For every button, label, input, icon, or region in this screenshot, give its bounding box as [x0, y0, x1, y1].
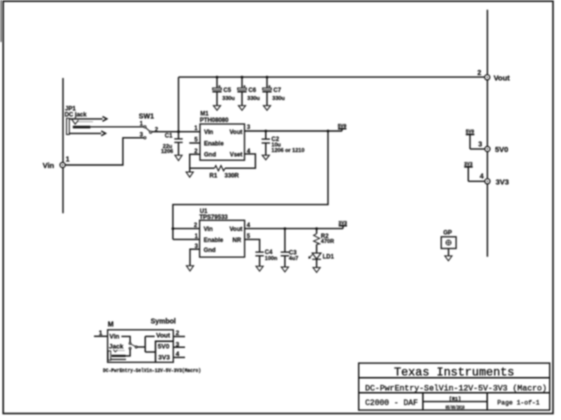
capacitor C5 330u: [212, 76, 234, 111]
svg-text:5V0: 5V0: [466, 128, 475, 135]
svg-text:DC-PwrEntry-SelVin-12V-5V-3V3(: DC-PwrEntry-SelVin-12V-5V-3V3(Macro): [103, 368, 201, 374]
wire 5V0 flag to node: [470, 148, 485, 150]
title block revision divider: [423, 401, 487, 403]
svg-text:C7: C7: [273, 88, 281, 94]
LED LD1: [308, 253, 334, 272]
svg-text:3: 3: [247, 125, 251, 131]
node 3V3 terminal pin 4: [480, 174, 509, 187]
svg-text:2: 2: [155, 127, 159, 133]
node 5V0 terminal pin 3: [478, 142, 508, 154]
svg-text:330R: 330R: [225, 174, 240, 180]
capacitor C6 330u: [237, 76, 259, 111]
wire M1 Gnd down: [190, 154, 200, 172]
svg-text:5V0: 5V0: [158, 344, 170, 351]
title block row line 2: [359, 392, 550, 394]
wire Vin vertical stub: [62, 78, 64, 213]
svg-text:2: 2: [477, 70, 481, 77]
svg-text:3: 3: [478, 142, 482, 149]
regulator U1 TPS79533: [194, 209, 251, 257]
svg-text:Vset: Vset: [230, 153, 243, 159]
svg-text:C2000 - DAF: C2000 - DAF: [365, 399, 418, 408]
svg-text:1: 1: [66, 156, 70, 163]
svg-text:NR: NR: [233, 238, 242, 244]
svg-text:M: M: [108, 321, 114, 328]
svg-text:U1: U1: [200, 209, 208, 215]
svg-text:[R1]: [R1]: [449, 397, 461, 403]
wire 5V0 branch down to U1: [172, 130, 330, 240]
svg-text:2: 2: [176, 330, 180, 337]
wire U1 NR to C4: [245, 239, 260, 252]
node Vin terminal pin 1: [43, 156, 70, 170]
symbol pin 1 wire: [94, 335, 108, 337]
wire Vin to SW1 pin3: [65, 138, 144, 165]
symbol pin 2 wire: [173, 336, 185, 338]
svg-text:GP: GP: [443, 231, 452, 237]
svg-text:Vin: Vin: [204, 227, 214, 233]
svg-text:Gnd: Gnd: [204, 153, 216, 159]
symbol inner box 5V0/3V3: [156, 341, 174, 362]
wire 3V3 flag to node: [468, 180, 484, 182]
svg-text:4u7: 4u7: [289, 256, 298, 262]
svg-text:DC-PwrEntry-SelVin-12V-5V-3V3: DC-PwrEntry-SelVin-12V-5V-3V3 (Macro): [365, 383, 547, 393]
capacitor C2 10u: [262, 130, 305, 160]
svg-text:C1: C1: [165, 134, 173, 140]
svg-text:Vout: Vout: [230, 227, 243, 233]
svg-text:1206: 1206: [161, 149, 173, 155]
svg-text:Vin: Vin: [109, 334, 119, 341]
svg-text:Vout: Vout: [156, 333, 171, 340]
connector JP1 DC jack: [65, 106, 144, 135]
ground below U1: [186, 266, 193, 271]
svg-text:1206 or 1210: 1206 or 1210: [271, 148, 304, 154]
svg-text:330u: 330u: [247, 96, 260, 102]
svg-text:Symbol: Symbol: [151, 318, 176, 325]
ground point GP: [441, 231, 456, 261]
title block column line 1: [422, 393, 424, 410]
symbol pin 3 wire: [173, 346, 185, 348]
svg-text:Vout: Vout: [494, 73, 511, 82]
svg-text:C6: C6: [248, 88, 256, 94]
symbol wire switch common to output cells: [137, 346, 145, 348]
node Vout terminal pin 2: [477, 70, 510, 83]
svg-text:3: 3: [176, 341, 180, 348]
ground below M1 Gnd: [186, 172, 193, 177]
capacitor C4 100n: [255, 250, 278, 271]
svg-text:Texas Instruments: Texas Instruments: [394, 365, 514, 379]
resistor R1 330R: [190, 154, 256, 180]
capacitor C3 4u7: [281, 227, 299, 272]
svg-text:1: 1: [99, 330, 103, 337]
regulator module M1 PTH08080: [194, 112, 251, 161]
svg-text:M1: M1: [200, 112, 209, 118]
wire U1 Vout to 3V3 flag: [245, 228, 343, 230]
svg-text:5V0: 5V0: [495, 145, 508, 154]
svg-text:C5: C5: [223, 88, 231, 94]
capacitor C1: [161, 77, 183, 155]
wire SW1 pin2 to M1 Vin: [152, 131, 200, 133]
svg-text:3V3: 3V3: [464, 161, 473, 168]
svg-text:100n: 100n: [265, 256, 278, 262]
wire top Vout net: [179, 76, 488, 78]
wire M1 Vout to 5V0 flag: [245, 130, 343, 132]
svg-text:3V3: 3V3: [158, 354, 170, 361]
symbol jack drawing: [108, 349, 130, 360]
svg-text:Enable: Enable: [204, 141, 224, 147]
svg-text:PTH08080: PTH08080: [200, 118, 229, 124]
title block row line 1: [359, 377, 550, 379]
svg-text:SW1: SW1: [139, 114, 154, 121]
capacitor C7 330u: [262, 76, 284, 111]
svg-text:Vin: Vin: [43, 161, 55, 170]
svg-text:Gnd: Gnd: [204, 248, 216, 254]
svg-text:330u: 330u: [222, 96, 235, 102]
svg-text:Enable: Enable: [204, 238, 224, 244]
switch SW1: [139, 114, 159, 139]
svg-text:Page 1-of-1: Page 1-of-1: [497, 399, 539, 406]
wire M1 Enable stub: [189, 142, 200, 144]
svg-text:470R: 470R: [321, 239, 334, 245]
svg-text:5V0: 5V0: [338, 123, 347, 130]
scan artifact line top-left: [0, 0, 2, 42]
ground below C1: [175, 155, 182, 160]
svg-text:R1: R1: [210, 174, 218, 180]
symbol pin 4 wire: [173, 356, 185, 358]
svg-text:Vout: Vout: [230, 130, 243, 136]
wire U1 Gnd down: [190, 249, 200, 266]
symbol outer box: [108, 330, 174, 363]
svg-text:3V3: 3V3: [496, 177, 509, 186]
net label 3V3 flag at wire end: [338, 220, 347, 229]
svg-text:4: 4: [176, 351, 180, 358]
title block outer box: [359, 363, 550, 410]
svg-text:3V3: 3V3: [338, 220, 347, 227]
resistor R2 470R: [314, 227, 334, 253]
SYMBOL SECTION: [94, 318, 201, 374]
svg-text:05/09/2010: 05/09/2010: [446, 405, 465, 411]
svg-text:DC jack: DC jack: [65, 112, 88, 118]
svg-text:4: 4: [480, 174, 484, 181]
wire right vertical rail: [486, 10, 488, 257]
title block column line 2: [486, 393, 488, 410]
symbol wire Vin to switch: [121, 336, 130, 342]
net label 5V0 flag at wire end: [338, 123, 347, 131]
svg-text:LD1: LD1: [323, 254, 335, 260]
svg-text:Jack: Jack: [109, 344, 124, 351]
svg-text:Vin: Vin: [204, 130, 214, 136]
symbol switch: [129, 342, 131, 344]
TITLE BLOCK: [359, 363, 550, 411]
svg-text:330u: 330u: [272, 96, 285, 102]
